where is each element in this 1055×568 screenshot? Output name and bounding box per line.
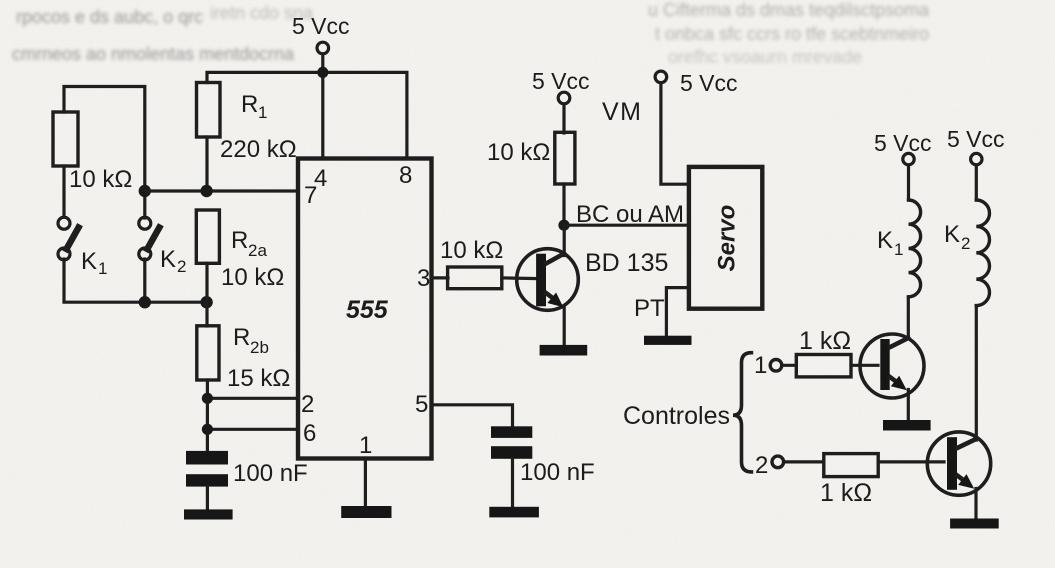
label BC ou AM: [576, 201, 684, 228]
label 5 Vcc (servo): [680, 70, 738, 96]
label Controles: [623, 402, 730, 430]
wire Q2 emitter to ground: [974, 489, 977, 520]
wire BC ou AM to servo: [564, 224, 689, 227]
svg-text:K: K: [944, 221, 960, 248]
label 10 kΩ (base BD135): [440, 237, 503, 264]
wire VM supply to servo: [661, 83, 689, 184]
wire terminal 2 to resistor: [784, 460, 824, 463]
svg-text:100 nF: 100 nF: [233, 460, 308, 487]
node junction bus-R2a bottom: [200, 296, 212, 308]
svg-text:5 Vcc: 5 Vcc: [292, 13, 350, 39]
label 555: [346, 296, 389, 324]
pin 6 label: [303, 420, 316, 447]
label terminal 2: [755, 452, 768, 479]
label 100 nF (pin 5): [520, 459, 595, 486]
ground (pin 1): [341, 506, 391, 518]
5 Vcc terminal (555 supply): [317, 42, 329, 54]
resistor R2a: [196, 210, 219, 263]
resistor 10 kΩ (left branch): [53, 112, 78, 166]
label R2b: [233, 324, 269, 357]
label VM: [602, 98, 643, 126]
svg-text:15 kΩ: 15 kΩ: [227, 365, 290, 392]
wire pin 2: [207, 397, 298, 400]
relay coil K1: [909, 200, 921, 297]
wire top-left branch: [64, 87, 145, 192]
svg-text:555: 555: [346, 296, 389, 324]
relay coil K2: [976, 200, 989, 306]
wire pin 5: [432, 405, 513, 427]
wire cap to ground: [206, 487, 209, 510]
capacitor 100 nF (timing): [186, 451, 228, 487]
node junction pin6: [202, 424, 213, 435]
wire K1 to bottom bus: [64, 259, 207, 302]
wire 5Vcc rail: [207, 54, 407, 158]
svg-text:PT: PT: [634, 295, 665, 322]
resistor R2b: [197, 326, 219, 380]
svg-text:BC ou AM: BC ou AM: [576, 201, 684, 228]
svg-text:1: 1: [258, 103, 267, 122]
svg-text:7: 7: [304, 182, 317, 209]
ground (PT): [644, 336, 692, 345]
svg-text:K: K: [160, 246, 176, 273]
switch K2: [139, 217, 160, 260]
5 Vcc terminal (servo): [655, 71, 667, 83]
svg-text:2b: 2b: [250, 338, 269, 357]
label 1 kΩ (control 2): [820, 479, 872, 507]
wire resistor to Q1 base: [851, 364, 878, 367]
ground (Q2 emitter): [950, 519, 999, 529]
wire 5Vcc to coil K2: [975, 165, 978, 200]
label 5 Vcc (555 supply): [292, 13, 350, 39]
node junction BC ou AM: [558, 220, 569, 231]
svg-text:10 kΩ: 10 kΩ: [69, 166, 132, 193]
pin 4 label: [314, 165, 327, 192]
label 5 Vcc (K2 coil): [947, 126, 1005, 152]
pin 2 label: [301, 391, 314, 418]
svg-text:VM: VM: [602, 98, 643, 126]
label 5 Vcc (BD135 collector): [532, 68, 590, 94]
wire emitter down to ground: [563, 307, 566, 346]
wire resistor to switch K1: [62, 166, 65, 217]
ground (Q1 emitter): [883, 420, 931, 431]
svg-text:R: R: [241, 91, 258, 118]
node junction pin2: [202, 393, 213, 404]
wire pin 3 output: [432, 276, 449, 279]
ground (pin 5 cap): [489, 507, 539, 518]
svg-text:1 kΩ: 1 kΩ: [820, 479, 872, 507]
terminal 1: [770, 360, 782, 372]
svg-text:10 kΩ: 10 kΩ: [440, 237, 503, 264]
svg-text:5 Vcc: 5 Vcc: [680, 70, 738, 96]
servo box: [689, 167, 762, 309]
wire 5Vcc to coil K1: [907, 165, 910, 200]
svg-text:2a: 2a: [248, 241, 267, 260]
svg-text:2: 2: [961, 234, 970, 253]
label 100 nF (timing): [233, 460, 308, 487]
5 Vcc terminal (K1 coil): [903, 153, 914, 164]
wire resistor to base: [502, 276, 537, 280]
resistor 10 kΩ (collector load): [555, 132, 575, 184]
svg-text:BD 135: BD 135: [585, 249, 668, 277]
label K2 (switch): [160, 246, 186, 276]
svg-text:2: 2: [177, 257, 186, 276]
label R1: [241, 91, 267, 122]
wire resistor to Q2 base: [878, 460, 944, 463]
svg-text:1: 1: [754, 352, 767, 379]
svg-text:10 kΩ: 10 kΩ: [487, 139, 550, 166]
node junction bus-K2 bottom: [139, 296, 151, 308]
label K2 (coil): [944, 221, 970, 253]
svg-text:1: 1: [359, 432, 372, 459]
label PT: [634, 295, 665, 322]
wire R2a to bus: [205, 263, 208, 302]
ground (timing cap): [184, 509, 233, 519]
svg-text:100 nF: 100 nF: [520, 459, 595, 486]
svg-text:1: 1: [98, 259, 107, 278]
svg-text:K: K: [81, 248, 97, 275]
node junction K2 top: [139, 185, 151, 197]
label 10 kΩ (collector load): [487, 139, 550, 166]
resistor 10 kΩ (base BD135): [448, 267, 502, 289]
label BD 135: [585, 249, 668, 277]
wire bus to R2b: [205, 302, 208, 326]
5 Vcc terminal (K2 coil): [971, 153, 982, 164]
brace Controles: [733, 353, 751, 472]
svg-text:5 Vcc: 5 Vcc: [874, 130, 932, 156]
svg-text:5 Vcc: 5 Vcc: [532, 68, 590, 94]
svg-text:3: 3: [417, 265, 430, 292]
bleed-through ghost text: [12, 0, 930, 67]
pin 5 label: [415, 391, 428, 418]
wire terminal 1 to resistor: [782, 364, 797, 367]
label K1 (coil): [877, 227, 903, 259]
label terminal 1: [754, 352, 767, 379]
wire K2 to bottom bus: [143, 259, 146, 302]
pin 7 label: [304, 182, 317, 209]
wire R1 to node A: [205, 137, 208, 191]
wire resistor to node: [562, 184, 565, 225]
pin 8 label: [399, 162, 412, 189]
capacitor 100 nF (pin 5): [491, 426, 532, 459]
wire 5Vcc to resistor: [562, 104, 565, 133]
label 10 kΩ (left): [69, 166, 132, 193]
svg-text:2: 2: [301, 391, 314, 418]
wire R2b to cap: [206, 380, 209, 451]
svg-text:Controles: Controles: [623, 402, 730, 430]
label 15 kΩ: [227, 365, 290, 392]
resistor 1 kΩ (control 2): [824, 454, 878, 477]
wire pin 6: [207, 428, 298, 431]
resistor R1: [197, 83, 221, 138]
transistor Q1: [860, 334, 924, 398]
resistor 1 kΩ (control 1): [796, 355, 851, 377]
svg-text:5: 5: [415, 391, 428, 418]
node junction 5Vcc rail: [317, 67, 328, 78]
svg-text:R: R: [231, 227, 248, 254]
label Servo: [713, 205, 740, 272]
transistor Q2: [927, 432, 990, 495]
wire K2 branch: [143, 191, 146, 218]
svg-text:Servo: Servo: [713, 205, 740, 272]
svg-text:220 kΩ: 220 kΩ: [220, 136, 297, 163]
wire PT: [666, 288, 689, 336]
svg-text:K: K: [877, 227, 893, 254]
svg-text:6: 6: [303, 420, 316, 447]
svg-text:2: 2: [755, 452, 768, 479]
wire collector up: [563, 225, 566, 255]
svg-text:5 Vcc: 5 Vcc: [947, 126, 1005, 152]
terminal 2: [772, 456, 784, 468]
wire Q1 collector to coil K1: [907, 297, 910, 339]
svg-text:8: 8: [399, 162, 412, 189]
label K1 (switch): [81, 248, 107, 278]
node junction A (R1/R2a): [200, 185, 212, 197]
pin 1 label: [359, 432, 372, 459]
wire pin5 cap to ground: [511, 459, 514, 507]
wire Q2 collector to coil K2: [975, 306, 978, 440]
svg-text:10 kΩ: 10 kΩ: [221, 264, 284, 291]
wire node row to pin 7: [145, 189, 298, 192]
IC 555: [298, 159, 432, 459]
5 Vcc terminal (BD135 collector): [558, 92, 570, 104]
label R2a: [231, 227, 267, 260]
wire pin 1: [364, 459, 367, 508]
label 220 kΩ: [220, 136, 297, 163]
ground (BD135 emitter): [540, 345, 588, 356]
wire Q1 emitter to ground: [907, 390, 910, 422]
pin 3 label: [417, 265, 430, 292]
label 10 kΩ (R2a): [221, 264, 284, 291]
transistor BD135: [517, 249, 579, 311]
switch K1: [58, 217, 79, 260]
svg-text:1 kΩ: 1 kΩ: [799, 327, 851, 355]
svg-text:R: R: [233, 324, 250, 351]
svg-text:1: 1: [894, 240, 903, 259]
label 5 Vcc (K1 coil): [874, 130, 932, 156]
label 1 kΩ (control 1): [799, 327, 851, 355]
